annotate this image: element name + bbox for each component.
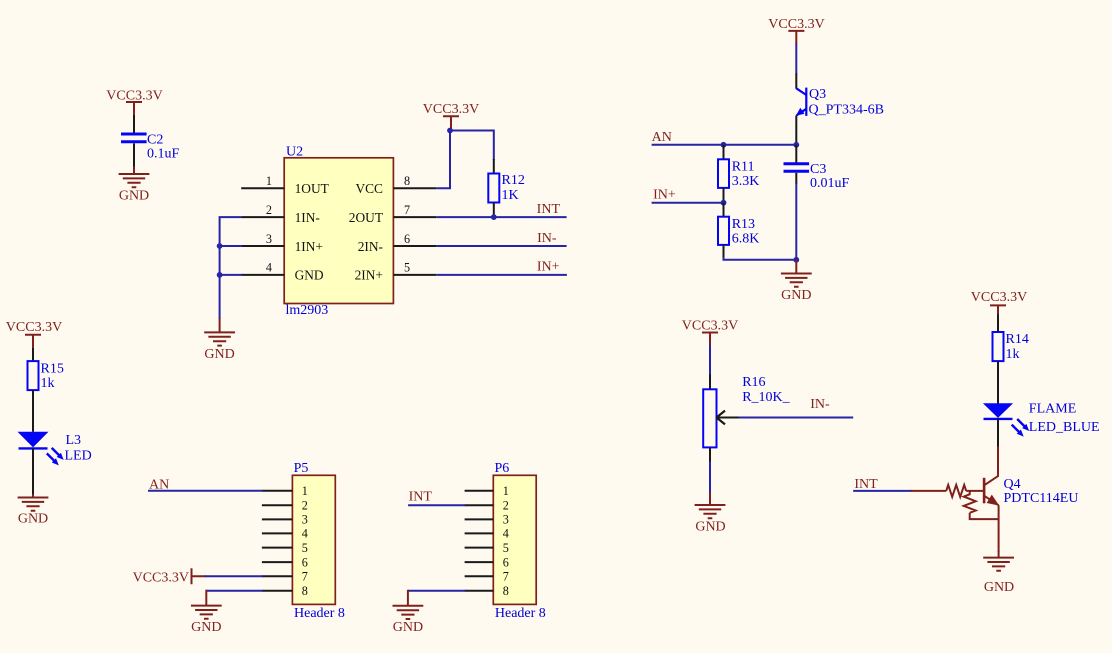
svg-text:3: 3 [503,513,509,527]
junction R12 / INT [491,214,497,220]
junction VCC node [447,128,453,134]
svg-text:INT: INT [409,490,433,505]
wire C3 top pin [795,145,797,163]
wire VCC to P5 pin7 [205,575,263,577]
svg-text:INT: INT [537,202,561,217]
svg-text:GND: GND [984,580,1014,595]
svg-text:6: 6 [404,232,410,246]
svg-text:4: 4 [302,527,308,541]
P5 pin 1 [262,484,308,498]
svg-text:VCC3.3V: VCC3.3V [682,318,738,333]
power VCC3.3V (U2 branch) [423,102,479,130]
wire P6 pin8 to GND [408,590,466,592]
junction AN / Q3 emitter / C3 [793,142,799,148]
svg-text:R11: R11 [732,160,755,175]
svg-text:P5: P5 [294,461,309,476]
svg-text:8: 8 [302,584,308,598]
svg-text:1: 1 [302,484,308,498]
wire base-emitter resistor to emitter [970,513,999,519]
junction pin4 rail [217,272,223,278]
wire R16 top pin [709,375,711,390]
pin 4 (GND) [241,261,324,283]
wire R11 top pin [723,145,725,160]
pin 6 (2IN-) [358,232,437,254]
ground GND (Q3 block) [781,260,812,303]
P6 pin 7 [465,570,509,584]
wire R14 to LED [997,361,999,404]
op-amp U2 body [284,158,393,304]
power VCC3.3V (P5 pin7) [133,568,206,585]
potentiometer R16 body [703,389,716,447]
wire LED to Q4 collector (black) [997,419,999,448]
transistor Q4 [984,476,999,506]
svg-text:VCC3.3V: VCC3.3V [768,17,824,32]
svg-text:1K: 1K [502,188,519,203]
wire pin2 to ground rail [220,217,242,319]
wire C2 top pin [133,115,135,133]
junction IN+ / R13 [721,200,727,206]
svg-text:2OUT: 2OUT [349,210,383,225]
svg-text:IN-: IN- [537,231,557,246]
wire VCC to Q3 collector [795,44,797,75]
wire VCC to R16 [709,345,711,376]
power VCC3.3V (R14 branch) [971,290,1027,315]
P6 pin 5 [465,541,509,555]
P5 pin 8 [262,584,308,598]
svg-text:3.3K: 3.3K [732,174,760,189]
svg-text:Q3: Q3 [809,87,826,102]
svg-text:1k: 1k [41,376,55,391]
svg-text:GND: GND [191,620,221,635]
ground GND (C2 branch) [119,167,150,204]
svg-text:1k: 1k [1006,347,1020,362]
ground GND (U2) [204,318,235,362]
svg-text:0.1uF: 0.1uF [147,147,180,162]
svg-text:6.8K: 6.8K [732,232,760,247]
P5 pin 7 [262,570,308,584]
resistor R13 [718,217,729,245]
wire INT net [436,216,566,218]
svg-text:Q4: Q4 [1004,477,1021,492]
svg-text:GND: GND [295,268,324,283]
wire Q3 collector pin [795,74,797,89]
wire C3 bottom pin [795,173,797,184]
P6 pin 3 [465,513,509,527]
P6 pin 6 [465,555,509,569]
svg-text:R16: R16 [742,375,765,390]
svg-text:8: 8 [503,584,509,598]
P6 pin 4 [465,527,509,541]
power VCC3.3V (R15 branch) [6,320,62,349]
svg-text:2IN-: 2IN- [358,239,383,254]
svg-text:C2: C2 [147,132,163,147]
pin 2 (1IN-) [241,203,320,225]
svg-text:1: 1 [503,484,509,498]
ground GND (P6) [393,590,424,635]
pin 3 (1IN+) [241,232,323,254]
svg-text:LED_BLUE: LED_BLUE [1029,420,1100,435]
svg-text:GND: GND [781,288,811,303]
wire AN to P5 pin1 [148,490,263,492]
wire P5 pin8 to GND [206,590,263,592]
svg-text:VCC: VCC [355,181,383,196]
junction AN / R11 [721,142,727,148]
power VCC3.3V (C2 branch) [106,89,162,117]
connector P6 body [493,475,536,604]
potentiometer R16 wiper arrow [717,411,740,425]
svg-text:5: 5 [302,541,308,555]
svg-text:IN+: IN+ [653,187,676,202]
svg-text:4: 4 [503,527,509,541]
pin 1 (1OUT) [241,174,329,196]
wire wiper to IN- [739,417,854,419]
svg-text:GND: GND [393,620,423,635]
resistor Q4 base (zigzag) [946,485,966,497]
wire R14 top pin [997,314,999,332]
svg-text:Header 8: Header 8 [294,606,345,621]
svg-text:0.01uF: 0.01uF [810,176,850,191]
svg-text:R14: R14 [1006,332,1029,347]
capacitor C3 [784,164,810,172]
svg-text:7: 7 [503,570,509,584]
wire LED to Q4 collector (red) [997,447,999,477]
svg-text:LED: LED [65,448,92,463]
P5 pin 5 [262,541,308,555]
svg-text:PDTC114EU: PDTC114EU [1004,491,1079,506]
svg-text:R15: R15 [41,361,64,376]
resistor R14 [993,332,1004,361]
svg-text:7: 7 [404,203,410,217]
wire VCC to R12 top [450,131,494,161]
wire R11 bottom pin [723,188,725,203]
wire R13 top pin [723,203,725,217]
P6 pin 1 [465,484,509,498]
P5 pin 3 [262,513,308,527]
wire Q4 emitter to GND [998,505,1000,552]
svg-text:R13: R13 [732,217,755,232]
wire R13 bottom pin [723,245,725,258]
resistor R12 [488,174,499,203]
svg-text:6: 6 [503,555,509,569]
svg-text:IN-: IN- [810,397,830,412]
wire divider bottom to GND node [724,257,797,260]
svg-text:GND: GND [204,347,234,362]
wire R12 top pin [493,159,495,174]
svg-text:IN+: IN+ [537,260,560,275]
power VCC3.3V (R16 branch) [682,318,738,345]
svg-text:U2: U2 [286,145,303,160]
pin 7 (2OUT) [349,203,437,225]
P5 pin 6 [262,555,308,569]
pin 8 (VCC) [355,174,436,196]
resistor R15 [28,361,39,390]
svg-text:VCC3.3V: VCC3.3V [971,290,1027,305]
svg-text:5: 5 [404,261,410,275]
svg-text:AN: AN [652,130,672,145]
wire INT to base resistor [911,490,947,492]
resistor R11 [718,159,729,188]
svg-text:1OUT: 1OUT [295,181,329,196]
svg-text:2: 2 [503,498,509,512]
connector P5 body [292,475,335,604]
wire INT to P6 pin2 [408,504,466,506]
wire R16 to GND [709,462,711,494]
svg-text:VCC3.3V: VCC3.3V [6,320,62,335]
svg-text:1IN-: 1IN- [295,210,320,225]
svg-text:P6: P6 [495,461,510,476]
svg-text:R_10K_: R_10K_ [742,390,790,405]
svg-text:2: 2 [266,203,272,217]
junction GND node (Q3 block) [793,257,799,263]
wire IN+ net to divider [652,202,724,204]
junction pin3 rail [217,243,223,249]
wire INT net (Q4) [853,490,912,492]
wire Q3 emitter pin [795,116,797,145]
svg-text:6: 6 [302,555,308,569]
svg-text:8: 8 [404,174,410,188]
svg-text:1: 1 [266,174,272,188]
P5 pin 4 [262,527,308,541]
svg-text:FLAME: FLAME [1029,402,1076,417]
svg-text:Header 8: Header 8 [495,606,546,621]
svg-text:1IN+: 1IN+ [295,239,323,254]
svg-text:3: 3 [266,232,272,246]
P6 pin 2 [465,498,509,512]
wire rail to pin4 [220,274,243,276]
P6 pin 8 [465,584,509,598]
ground GND (Q4) [983,551,1014,595]
wire IN+ net [436,274,567,276]
svg-text:L3: L3 [66,433,82,448]
svg-text:lm2903: lm2903 [286,303,329,318]
wire C2 bottom pin [133,143,135,167]
svg-text:7: 7 [302,570,308,584]
wire C3 to GND node [795,183,797,260]
wire LED to GND [32,448,34,495]
capacitor C2 [121,134,147,142]
svg-text:R12: R12 [502,173,525,188]
pin 5 (2IN+) [355,261,437,283]
ground GND (P5) [191,590,222,635]
svg-text:2IN+: 2IN+ [355,268,383,283]
wire IN- net [436,245,566,247]
wire pin8 to VCC [436,131,450,189]
wire AN net [652,144,797,146]
LED FLAME / LED_BLUE [983,403,1029,436]
wire R16 bottom pin [709,447,711,462]
svg-text:2: 2 [302,498,308,512]
svg-text:GND: GND [119,189,149,204]
LED L3 [18,432,64,466]
svg-text:3: 3 [302,513,308,527]
svg-text:4: 4 [266,261,272,275]
wire R12 bottom pin [493,203,495,218]
svg-text:VCC3.3V: VCC3.3V [133,570,189,585]
power VCC3.3V (Q3 branch) [768,17,824,44]
wire R15 to LED [32,390,34,432]
P5 pin 2 [262,498,308,512]
svg-text:5: 5 [503,541,509,555]
wire rail to pin3 [220,245,243,247]
ground GND (L3 branch) [18,494,49,527]
svg-text:VCC3.3V: VCC3.3V [423,102,479,117]
ground GND (R16) [695,493,726,535]
wire zigzag to Q4 base [966,490,984,492]
transistor Q3 [796,88,806,116]
resistor Q4 base-emitter (zigzag) [964,491,976,513]
svg-text:GND: GND [695,520,725,535]
svg-text:Q_PT334-6B: Q_PT334-6B [809,102,884,117]
svg-text:GND: GND [18,512,48,527]
wire R15 top pin [32,348,34,361]
